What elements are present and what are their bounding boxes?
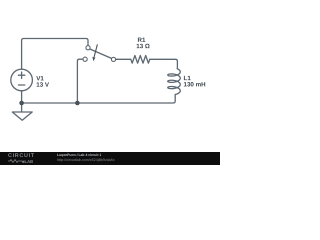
credit line 2 bbox=[57, 158, 115, 162]
svg-text:13 V: 13 V bbox=[36, 82, 50, 89]
wire top rail from V1 to switch bbox=[22, 39, 88, 70]
inductor L1 coil bbox=[168, 69, 181, 95]
switch SW1 throw A terminal bbox=[86, 46, 90, 50]
switch lever bbox=[90, 49, 112, 59]
junction node at V1 / bottom rail bbox=[19, 101, 24, 106]
wire resistor to inductor bbox=[150, 59, 178, 68]
wire switch common to resistor bbox=[116, 58, 131, 60]
wire from switch throw B down to bottom rail bbox=[77, 59, 83, 103]
junction node at switch branch / bottom rail bbox=[75, 101, 80, 106]
switch toggle arrow bbox=[92, 44, 97, 61]
switch SW1 throw B terminal bbox=[83, 57, 87, 61]
switch SW1 common terminal bbox=[111, 57, 115, 61]
resistor R1 bbox=[131, 56, 150, 64]
svg-text:13 Ω: 13 Ω bbox=[136, 43, 150, 50]
credit line 1 bbox=[57, 153, 101, 157]
CircuitLab logo bbox=[8, 153, 39, 164]
ground bbox=[12, 112, 32, 120]
bottom rail wire bbox=[22, 95, 176, 103]
svg-text:130 mH: 130 mH bbox=[184, 81, 207, 88]
voltage source V1 bbox=[11, 69, 33, 91]
watermark bar bbox=[0, 152, 220, 165]
wire V1 bottom to ground bbox=[21, 91, 23, 112]
